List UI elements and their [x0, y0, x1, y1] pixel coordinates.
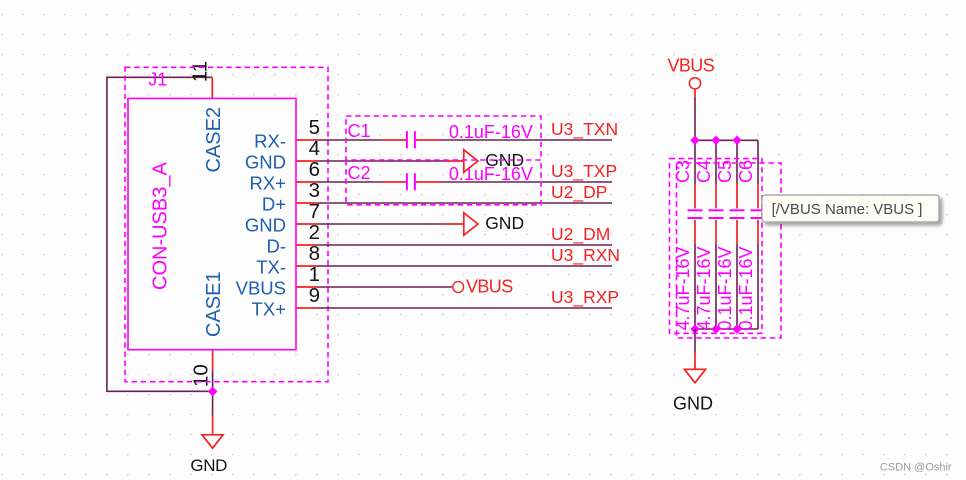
svg-text:GND: GND: [673, 393, 713, 413]
pin 2 D- stub: [296, 244, 317, 246]
svg-text:U2_DM: U2_DM: [551, 224, 610, 245]
VBUS power port circle: [689, 78, 700, 89]
ground power port on pin 7 wire: [445, 223, 464, 225]
svg-text:0.1uF-16V: 0.1uF-16V: [449, 122, 533, 142]
wire pin1 to VBUS port: [317, 286, 452, 288]
wire pin6 to C2: [317, 181, 381, 183]
ground power port (bottom left): [212, 415, 214, 435]
svg-text:U3_RXP: U3_RXP: [551, 287, 619, 308]
svg-text:CASE1: CASE1: [203, 271, 225, 337]
bottom bus wire: [695, 328, 758, 330]
svg-text:J1: J1: [148, 70, 167, 90]
svg-text:VBUS: VBUS: [668, 55, 715, 75]
svg-text:5: 5: [309, 116, 320, 139]
wire pin9 U3_RXP: [317, 307, 612, 309]
svg-text:RX-: RX-: [254, 130, 286, 151]
pin 8 TX- stub: [296, 265, 317, 267]
svg-text:RX+: RX+: [249, 172, 286, 193]
junction diamond: [209, 388, 217, 396]
svg-text:U3_TXP: U3_TXP: [551, 161, 617, 182]
svg-text:TX+: TX+: [252, 298, 286, 319]
svg-text:CASE2: CASE2: [203, 107, 225, 173]
svg-text:0.1uF-16V: 0.1uF-16V: [715, 246, 735, 330]
pin 1 VBUS stub: [296, 286, 317, 288]
wire bottom bus to GND: [694, 329, 696, 353]
svg-text:VBUS: VBUS: [466, 276, 513, 296]
svg-text:C2: C2: [348, 163, 371, 183]
pin 7 GND stub: [296, 223, 317, 225]
svg-text:GND: GND: [485, 213, 524, 233]
svg-text:CON-USB3_A: CON-USB3_A: [150, 162, 172, 290]
dashed rect around C5/C6: [677, 163, 782, 338]
pin 5 RX- stub: [296, 139, 317, 141]
pin 4 GND stub: [296, 160, 317, 162]
pin 10 stub: [212, 350, 214, 371]
wire pin2 U2_DM: [317, 244, 612, 246]
ground power port on pin 4 wire: [445, 160, 464, 162]
junction top bus at C5: [733, 136, 741, 144]
svg-text:11: 11: [189, 61, 212, 82]
pin 3 D+ stub: [296, 202, 317, 204]
svg-text:U2_DP: U2_DP: [551, 182, 607, 203]
dashed rect around C2: [346, 160, 541, 205]
wire pin5 to C1: [317, 139, 381, 141]
svg-text:0.1uF-16V: 0.1uF-16V: [736, 246, 756, 330]
connector outer dashed rect: [125, 67, 328, 381]
svg-text:GND: GND: [245, 214, 286, 235]
junction top bus at C3: [691, 136, 699, 144]
dashed rect around C1: [346, 116, 541, 160]
svg-text:C1: C1: [348, 121, 371, 141]
capacitor C2 plates: [406, 173, 408, 190]
pin 11 stub: [211, 77, 213, 98]
svg-text:VBUS: VBUS: [236, 277, 286, 298]
capacitor C1 plates: [406, 131, 408, 148]
wire pin7 to GND port: [317, 223, 445, 225]
junction top bus at C4: [712, 136, 720, 144]
pin 6 RX+ stub: [296, 181, 317, 183]
svg-text:GND: GND: [190, 456, 227, 475]
svg-text:[/VBUS Name: VBUS ]: [/VBUS Name: VBUS ]: [772, 201, 923, 218]
svg-text:CSDN @Oshir: CSDN @Oshir: [880, 461, 952, 473]
junction bottom bus at C3: [691, 325, 699, 333]
wire pin10 to junction and down to GND: [212, 370, 214, 415]
svg-text:GND: GND: [245, 151, 286, 172]
capacitor C1 pins: [381, 139, 406, 141]
junction bottom bus at C4: [712, 325, 720, 333]
svg-text:D+: D+: [262, 193, 286, 214]
wire VBUS down to top bus: [694, 98, 696, 141]
top bus wire: [695, 139, 758, 141]
dashed rect around C3/C4: [670, 159, 763, 334]
capacitor C4 branch: [715, 140, 717, 184]
wire from pin 11 around left side to bottom junction: [107, 77, 213, 391]
svg-text:TX-: TX-: [256, 256, 286, 277]
wire pin4 to GND port: [317, 160, 445, 162]
svg-text:U3_RXN: U3_RXN: [551, 245, 620, 266]
wire pin8 U3_RXN: [317, 265, 612, 267]
capacitor C2 pins: [381, 181, 406, 183]
wire pin3 U2_DP: [317, 202, 612, 204]
capacitor C3 branch: [694, 140, 696, 184]
wire C2 to U3_TXP: [442, 181, 612, 183]
svg-text:U3_TXN: U3_TXN: [551, 119, 618, 140]
svg-text:D-: D-: [266, 235, 286, 256]
svg-text:10: 10: [190, 364, 213, 387]
VBUS power port on pin 1 wire: [453, 282, 464, 293]
capacitor C5 branch: [736, 140, 738, 184]
junction bottom bus at C5: [733, 325, 741, 333]
pin 9 TX+ stub: [296, 307, 317, 309]
capacitor C6 branch: [757, 140, 759, 184]
ground power port (right): [694, 353, 696, 370]
svg-text:4.7uF-16V: 4.7uF-16V: [694, 246, 714, 330]
component body CON-USB3_A: [128, 98, 296, 349]
wire C1 to U3_TXN: [442, 139, 612, 141]
tooltip [/VBUS Name: VBUS ]: [762, 195, 939, 222]
